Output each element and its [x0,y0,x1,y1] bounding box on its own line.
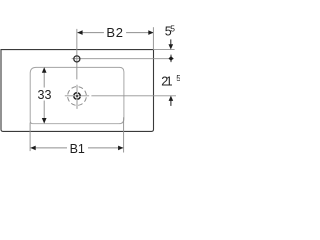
washbasin outer outline [1,50,154,132]
B2 right extension line [152,27,154,50]
drain center dot [76,95,79,98]
dimension dot on tap centerline [170,55,172,63]
svg-text:B1: B1 [70,142,85,156]
B1 left arrow [30,146,35,151]
B2 left arrow [77,30,82,35]
drain horizontal centerline extending right [65,95,89,97]
drain vertical centerline [76,85,78,109]
tap hole horizontal centerline extending right [72,58,174,60]
33 down arrow [42,118,47,124]
B2 right arrow [148,30,153,35]
svg-text:5: 5 [170,23,175,33]
basin bowl outline [30,67,124,123]
21^5 up arrow [169,96,174,101]
drain outer dashed circle [68,87,87,106]
svg-text:2: 2 [116,25,123,40]
B1 left extension line [29,123,31,152]
svg-text:1: 1 [166,75,173,89]
33 up arrow [42,67,47,73]
B2 dimension line [77,32,104,34]
tap hole vertical centerline / B2 extension [76,29,78,80]
drain inner circle [74,93,80,99]
5^5 top reference line [154,49,175,51]
svg-text:5: 5 [176,73,180,83]
svg-text:33: 33 [38,88,52,102]
B1 dimension line [30,147,67,149]
B1 right extension line [123,117,125,152]
5^5 down arrow [170,39,172,45]
33 dimension line upper segment [43,72,45,88]
33 dimension line lower segment [43,101,45,119]
tap hole circle [74,56,80,62]
svg-text:B: B [106,25,115,40]
B1 right arrow [118,146,123,151]
